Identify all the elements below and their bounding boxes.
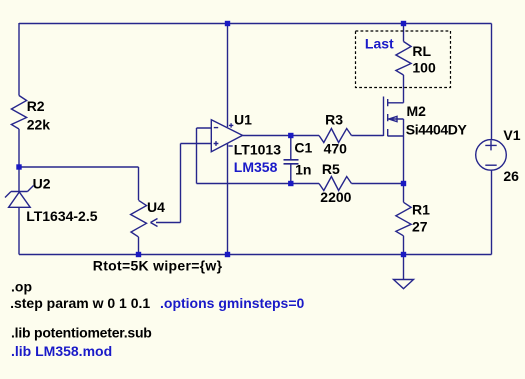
svg-text:1n: 1n (295, 162, 311, 178)
op-amp U1 V+ marker (229, 123, 233, 127)
junction V- bottom (225, 252, 230, 257)
capacitor C1 bottom lead (290, 164, 292, 184)
junction top RL (401, 21, 406, 26)
resistor R2 (11, 96, 26, 130)
svg-text:R1: R1 (412, 202, 430, 218)
resistor RL top lead (403, 24, 405, 42)
svg-text:R3: R3 (325, 112, 343, 128)
svg-text:27: 27 (412, 219, 428, 235)
wire R1 to bottom rail (403, 236, 405, 255)
wire R1 top lead (403, 184, 405, 203)
voltage source V1 minus marker (485, 164, 496, 166)
svg-text:U1: U1 (234, 111, 252, 127)
svg-text:V1: V1 (503, 127, 520, 143)
svg-text:M2: M2 (407, 103, 427, 119)
wire V1 top (491, 24, 493, 140)
wire top rail (19, 23, 492, 25)
voltage source V1 circle (476, 140, 507, 171)
svg-text:U2: U2 (33, 175, 51, 191)
transistor M2 channel segments (387, 99, 389, 136)
wire R5 to source node (352, 183, 404, 185)
svg-text:R2: R2 (27, 98, 45, 114)
diode U2 zener bar (5, 186, 34, 198)
diode U2 triangle (9, 192, 31, 207)
wire node A to U2 (18, 167, 20, 192)
svg-text:Last: Last (365, 35, 394, 51)
svg-text:22k: 22k (27, 116, 51, 132)
junction output C1 top (288, 133, 293, 138)
junction feedback C1 bottom (288, 181, 293, 186)
op-amp U1 V- marker (229, 145, 233, 147)
resistor RL (396, 42, 411, 76)
transistor M2 source lead (388, 136, 404, 184)
svg-text:LM358: LM358 (234, 159, 278, 175)
capacitor C1 plates (284, 160, 299, 164)
wire wiper to op-amp noninverting input (181, 144, 212, 223)
svg-text:.lib potentiometer.sub: .lib potentiometer.sub (11, 325, 152, 341)
transistor M2 drain lead (388, 75, 404, 103)
wire feedback row to C1 and R5 (197, 183, 320, 185)
wire bottom rail (19, 254, 492, 256)
svg-text:U4: U4 (147, 199, 165, 215)
transistor M2 gate bar (383, 97, 385, 137)
wire R3 to gate (352, 135, 384, 137)
svg-text:LT1634-2.5: LT1634-2.5 (26, 208, 98, 224)
svg-text:.op: .op (11, 279, 32, 295)
wire R2 to node A (18, 129, 20, 167)
op-amp U1 noninverting marker (214, 141, 219, 146)
wire potentiometer to bottom rail (138, 237, 140, 255)
junction pot bottom (136, 252, 141, 257)
wire V1 bottom (491, 170, 493, 254)
junction R5 source (401, 181, 406, 186)
junction node A (16, 164, 21, 169)
wire op-amp V+ pin (227, 24, 229, 128)
svg-text:26: 26 (503, 168, 519, 184)
transistor M2 body to source (403, 119, 405, 136)
junction R1 bottom (401, 252, 406, 257)
svg-text:2200: 2200 (320, 189, 351, 205)
wire op-amp inverting input (197, 128, 212, 184)
Last box dashed (356, 31, 451, 88)
svg-text:RL: RL (412, 43, 431, 59)
wire op-amp V- pin (227, 144, 229, 255)
op-amp U1 inverting marker (214, 127, 218, 129)
svg-text:470: 470 (324, 140, 348, 156)
wire op-amp output (243, 135, 320, 137)
ground (394, 280, 414, 289)
resistor R3 (319, 129, 352, 143)
svg-text:100: 100 (412, 60, 436, 76)
svg-text:R5: R5 (322, 161, 340, 177)
svg-text:Rtot=5K wiper={w}: Rtot=5K wiper={w} (93, 258, 223, 274)
resistor R5 (319, 177, 352, 191)
voltage source V1 plus marker (485, 140, 496, 150)
svg-text:.step param w 0 1 0.1: .step param w 0 1 0.1 (10, 295, 150, 311)
op-amp U1 triangle (211, 120, 242, 152)
wire left rail top (to R2) (18, 23, 20, 96)
svg-text:LT1013: LT1013 (234, 142, 281, 158)
capacitor C1 top lead (290, 136, 292, 160)
junction top V+ (225, 21, 230, 26)
wire node A to potentiometer (19, 167, 139, 200)
wiper arrow U4 (151, 219, 181, 227)
svg-text:.lib LM358.mod: .lib LM358.mod (11, 343, 112, 359)
svg-text:.options gminsteps=0: .options gminsteps=0 (160, 295, 305, 311)
svg-text:C1: C1 (294, 140, 312, 156)
transistor M2 body arrow (388, 116, 404, 121)
wire ground stub (403, 255, 405, 280)
resistor R1 (396, 202, 411, 236)
wire U2 to bottom rail (18, 207, 20, 254)
svg-text:Si4404DY: Si4404DY (406, 122, 468, 138)
potentiometer U4 (131, 200, 147, 237)
